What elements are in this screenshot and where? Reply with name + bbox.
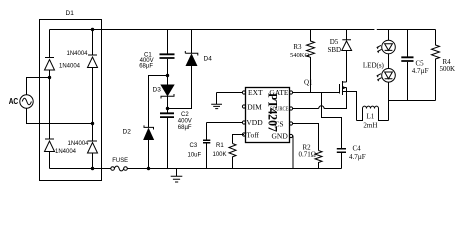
node D3/C2/D4 junction	[166, 107, 169, 110]
svg-text:4.7µF: 4.7µF	[349, 153, 366, 161]
wire AC bottom lead	[27, 108, 93, 123]
svg-text:CS: CS	[274, 120, 283, 129]
svg-text:4.7µF: 4.7µF	[412, 67, 429, 75]
svg-text:1N4004: 1N4004	[59, 64, 81, 70]
svg-text:68µF: 68µF	[178, 125, 192, 131]
svg-text:1N4004: 1N4004	[67, 51, 89, 57]
svg-text:Toff: Toff	[246, 131, 259, 140]
inductor L1 2mH	[357, 109, 363, 121]
AC source	[20, 95, 33, 108]
svg-text:D5: D5	[330, 38, 339, 46]
svg-text:D2: D2	[123, 128, 132, 135]
svg-text:540KO: 540KO	[290, 52, 309, 59]
svg-text:2mH: 2mH	[363, 121, 377, 129]
pin VDD	[242, 121, 245, 124]
diode D1d 1N4004 bottom-right	[88, 141, 98, 153]
diode D1a 1N4004 top-left	[45, 58, 55, 71]
wire LED branch from top rail	[388, 30, 390, 41]
wire EXT lead	[217, 92, 243, 94]
svg-text:R1: R1	[216, 143, 224, 149]
node AC top junction	[48, 76, 51, 79]
wire GND pin to bottom rail	[292, 136, 294, 169]
pin Toff	[242, 133, 245, 136]
pin CS	[289, 122, 292, 125]
zener diode D2	[144, 129, 154, 140]
resistor R4 500K	[432, 30, 440, 101]
wire D4 branch	[191, 30, 193, 54]
node C1/D3/D2 junction	[166, 74, 169, 77]
resistor R2 0.71ohm	[315, 151, 322, 169]
pin GATE	[289, 91, 292, 94]
svg-text:500K: 500K	[440, 65, 456, 73]
ground EXT small	[216, 93, 218, 105]
svg-text:SOURCE: SOURCE	[270, 106, 289, 113]
resistor R1 100K	[233, 135, 245, 144]
svg-text:D4: D4	[204, 55, 213, 62]
svg-text:LED(s): LED(s)	[363, 62, 385, 70]
svg-text:FUSE: FUSE	[112, 157, 128, 164]
svg-text:VDD: VDD	[246, 118, 263, 127]
capacitor C1 400V 68uF	[160, 54, 175, 58]
svg-text:R3: R3	[293, 43, 302, 51]
diode D1c 1N4004 bottom-left	[45, 139, 55, 152]
svg-text:AC: AC	[9, 97, 19, 106]
svg-text:0.71Ω: 0.71Ω	[299, 150, 316, 158]
svg-text:DIM: DIM	[247, 102, 262, 111]
svg-text:GND: GND	[272, 131, 289, 140]
wire bridge right rail	[92, 30, 94, 169]
ground main	[176, 169, 178, 177]
capacitor C5 4.7uF	[407, 30, 409, 58]
wire C1 branch from top rail	[167, 30, 169, 55]
bridge rectifier D1 package outline	[40, 20, 102, 181]
svg-text:EXT: EXT	[248, 88, 263, 97]
wire top rail	[50, 29, 436, 31]
wire VDD to C3	[207, 122, 243, 124]
svg-text:GATE: GATE	[269, 88, 289, 97]
svg-text:C3: C3	[190, 143, 198, 149]
capacitor C3 10uF	[206, 123, 208, 141]
wire AC top lead	[27, 78, 50, 95]
fuse FUSE	[111, 167, 115, 171]
wire LED/C5/R4 bottom bus	[389, 100, 436, 102]
wire bridge left rail	[49, 30, 51, 169]
zener diode D3	[167, 76, 169, 86]
zener diode D4	[185, 51, 198, 56]
wire LED bottom	[388, 82, 390, 120]
svg-text:C2: C2	[181, 112, 189, 118]
wire D2 branch	[149, 76, 168, 128]
wire SOURCE pin to Q1 source (with hop over C4 branch)	[293, 88, 347, 109]
pin EXT	[242, 91, 245, 94]
diode D1b 1N4004 top-right	[88, 55, 98, 68]
svg-text:400V: 400V	[178, 119, 192, 125]
svg-text:C4: C4	[353, 145, 362, 153]
svg-text:D1: D1	[66, 10, 75, 17]
node bottom rail D2 junction	[147, 167, 150, 170]
node top rail junction	[91, 28, 94, 31]
wire GATE to C4 branch	[322, 93, 342, 149]
svg-text:Q1: Q1	[304, 78, 313, 86]
svg-text:1N4004: 1N4004	[55, 149, 77, 155]
resistor R3 540KO	[307, 30, 315, 93]
wire GATE net	[293, 92, 340, 94]
svg-text:1N4004: 1N4004	[68, 141, 90, 147]
svg-text:SBD: SBD	[328, 46, 342, 54]
capacitor C4 4.7uF	[337, 149, 346, 153]
LED LED1	[382, 40, 396, 54]
svg-text:D3: D3	[153, 87, 162, 94]
capacitor C2 400V 68uF	[167, 109, 169, 114]
wire CS to R2	[293, 124, 319, 151]
pin DIM	[242, 105, 245, 108]
svg-text:10uF: 10uF	[188, 153, 202, 159]
pin GND	[289, 134, 292, 137]
svg-text:68µF: 68µF	[139, 64, 153, 70]
svg-text:100K: 100K	[213, 152, 227, 158]
wire bottom rail	[50, 168, 342, 170]
node bottom rail bridge junction	[91, 167, 94, 170]
svg-text:L1: L1	[367, 113, 375, 121]
diode D5 SBD	[346, 30, 348, 40]
node AC bottom junction	[91, 122, 94, 125]
op-amp U1 PT4207 IC box	[246, 88, 290, 143]
LED LED2	[382, 69, 396, 83]
pin SOURCE	[289, 107, 292, 110]
